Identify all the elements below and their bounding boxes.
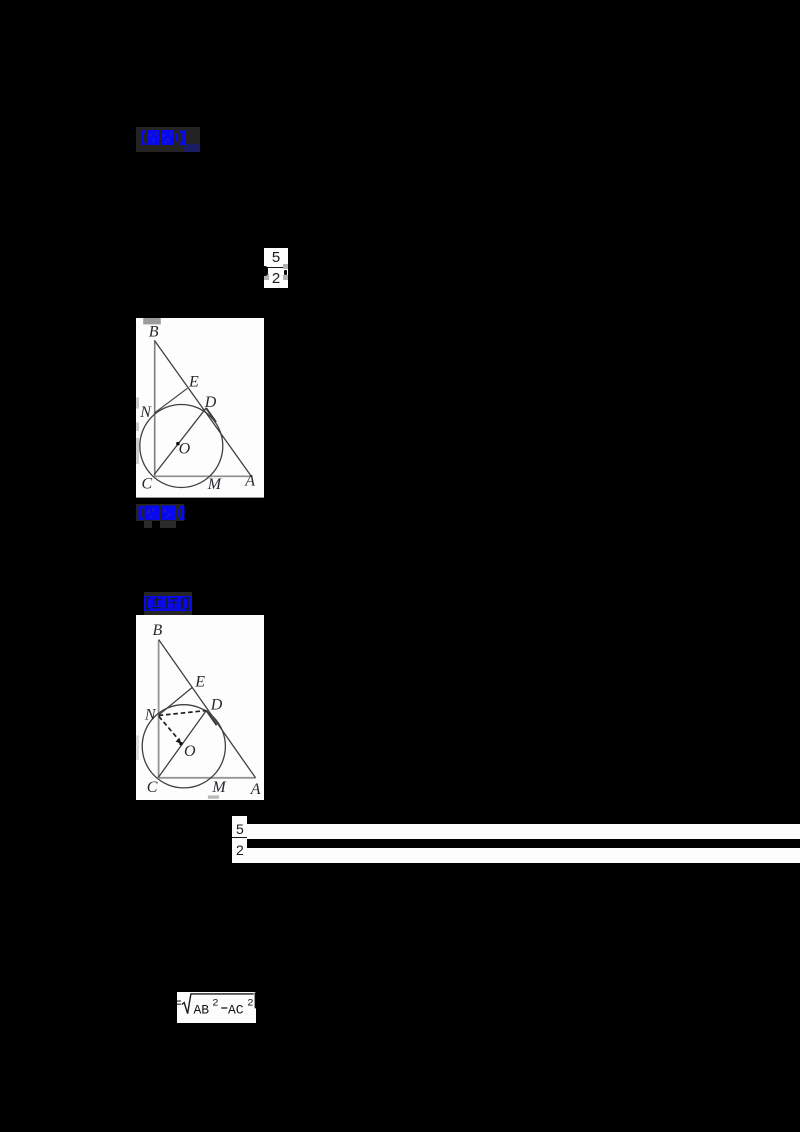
wire side BC [154,340,156,476]
wire segment EN [159,688,193,716]
svg-text:O: O [179,440,191,457]
wire side BC [158,640,160,778]
circle O [140,404,223,487]
fraction1 gray patch right upper [283,264,288,268]
svg-text:D: D [204,394,217,411]
minus sign [221,1007,227,1009]
fraction2 numerator 5 [232,822,247,836]
svg-text:M: M [207,476,223,493]
wire thick overlap below D [206,408,216,422]
fraction1 comma [284,270,287,275]
svg-text:2: 2 [212,998,218,1010]
dashed arrow NO [159,716,179,740]
svg-text:C: C [142,475,153,492]
circle O [142,705,225,788]
svg-text:O: O [184,743,196,760]
wire hypotenuse AB [159,640,256,778]
label1 backdrop [136,127,200,152]
label1 blue text glyphs [140,129,188,148]
svg-text:D: D [210,696,223,713]
dashed chord ND [159,711,206,716]
arrowhead at O [176,738,182,744]
equals sign [176,1001,181,1004]
label3 backdrop [144,592,192,615]
white strip 2 [247,848,800,863]
diagram1 left edge gray bar 3 [136,438,139,464]
fraction1 black blob left [263,266,268,276]
formula white box [177,992,256,1023]
svg-text:A: A [250,781,261,798]
svg-text:C: C [147,779,158,796]
label1 navy underline block [184,144,200,152]
svg-text:B: B [149,323,159,340]
center dot O [179,742,182,745]
wire diameter CD [158,710,206,777]
svg-text:E: E [194,673,205,690]
fraction1 white box [264,248,288,288]
wire diameter CD [154,408,206,475]
diagram1 left edge gray bar 1 [136,397,139,408]
svg-text:N: N [139,404,152,421]
cursor sliver [255,992,257,1008]
svg-text:AB: AB [194,1003,210,1018]
svg-text:E: E [188,373,199,390]
wire thick overlap below D [207,711,217,725]
fraction2 bar [232,837,247,839]
label2 foot 1 [144,521,152,529]
wire hypotenuse AB [154,340,251,476]
label2 backdrop [136,504,185,521]
diagram1 left edge gray bar 2 [136,422,139,430]
label3 blue selected text [144,596,192,611]
diagram2 bottom smudge under M [208,796,219,799]
diagram2 white background [136,615,264,800]
label2 blue text glyphs [138,505,185,521]
diagram1 white background [136,318,264,498]
fraction2 denominator 2 [232,843,247,857]
label2 foot 2 [160,521,176,529]
fraction1 bar [267,267,283,268]
wire side CA [155,475,252,477]
fraction1 gray patch left [264,274,269,280]
white strip 1 [247,824,800,839]
wire side CA [159,777,256,779]
fraction1 gray patch right lower [283,275,288,280]
fraction1 numerator 5 [264,250,288,265]
diagram1 gray notch top [143,318,161,324]
svg-text:AC: AC [228,1003,244,1018]
fraction2 white box [232,816,247,864]
fraction1 denominator 2 [264,271,288,286]
diagram2 left edge gray bar [136,736,139,760]
radical sign [182,994,254,1014]
center dot O [176,442,180,446]
svg-text:A: A [244,472,255,489]
svg-text:M: M [211,779,227,796]
svg-text:B: B [152,622,162,639]
wire segment EN [155,388,188,412]
svg-text:2: 2 [247,998,253,1010]
svg-text:N: N [144,706,157,723]
